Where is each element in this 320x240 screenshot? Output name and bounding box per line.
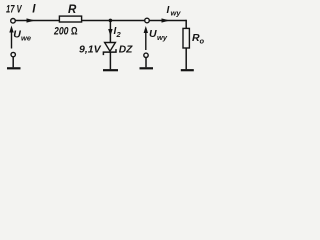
svg-text:I: I	[32, 4, 36, 16]
svg-text:R: R	[68, 4, 77, 16]
svg-text:o: o	[200, 37, 205, 46]
svg-text:wy: wy	[171, 9, 182, 18]
svg-text:wy: wy	[157, 33, 168, 42]
wire: down right side	[185, 20, 187, 29]
wire: top rail	[16, 20, 187, 22]
svg-text:2: 2	[116, 30, 122, 39]
wire: input terminal to ground	[12, 57, 14, 68]
arrow: U_we up	[11, 30, 13, 49]
arrow: current I2 down	[108, 29, 112, 36]
arrow: current I_wy on top wire	[162, 18, 170, 22]
ground: below zener	[103, 69, 118, 71]
wire: Ro to ground	[185, 48, 187, 69]
node: output tap (open circle on wire)	[145, 18, 150, 23]
svg-text:I: I	[167, 5, 170, 16]
svg-text:DZ: DZ	[119, 44, 133, 55]
resistor Ro (load box)	[183, 28, 189, 48]
terminal: input top (open circle)	[11, 19, 16, 24]
arrow: U_wy up	[145, 30, 147, 50]
ground: below Ro	[181, 69, 194, 71]
node: junction dot	[109, 19, 113, 23]
terminal: input bottom (open circle)	[11, 52, 15, 56]
wire: zener to ground	[109, 52, 111, 69]
ground: below input terminal	[7, 67, 21, 69]
svg-text:17 V: 17 V	[6, 4, 23, 16]
resistor R (series box)	[59, 16, 81, 22]
wire: output terminal to ground	[145, 58, 147, 68]
zener diode DZ triangle	[105, 43, 116, 52]
ground: below output terminal	[140, 67, 154, 69]
terminal: output bottom (open circle)	[144, 53, 148, 57]
svg-text:we: we	[21, 34, 31, 43]
svg-text:200 Ω: 200 Ω	[53, 26, 78, 38]
wire: zener branch down	[109, 21, 111, 43]
svg-text:U: U	[13, 29, 21, 41]
svg-text:U: U	[149, 28, 157, 40]
arrow: current I on top wire	[27, 18, 36, 22]
zener cathode bar with ticks	[103, 49, 116, 55]
svg-text:9,1V: 9,1V	[79, 44, 102, 56]
